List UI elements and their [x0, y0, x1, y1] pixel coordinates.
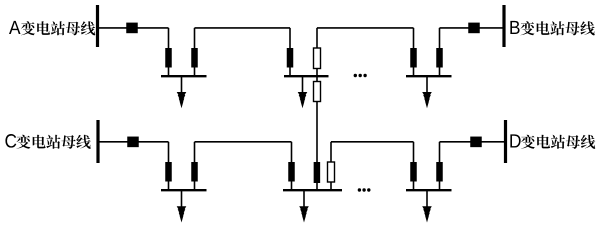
switch S13 on T11 branch — [410, 162, 417, 182]
branch wire at node T6 — [439, 28, 441, 76]
switch S11 (closed) on tie line above bar N5 — [314, 162, 321, 183]
circuit breaker QF3 on line C — [127, 137, 139, 148]
branch wire at node T11 — [413, 142, 415, 190]
branch wire at node T5 — [413, 28, 415, 76]
busbar D (substation D) — [504, 120, 507, 163]
wire W7: node T10 to node T11 — [331, 141, 414, 143]
busbar B (substation B) — [502, 5, 505, 47]
wire W8: node T12 to busbar D — [440, 141, 505, 143]
wire W2: node T2 to node T3 — [195, 27, 291, 29]
circuit breaker QF2 on line B — [468, 23, 480, 34]
busbar C (substation C) — [96, 120, 99, 163]
branch wire at node T9 — [291, 142, 293, 190]
load feeder arrow L4 — [181, 190, 183, 210]
wire W1: busbar A to node T1 — [99, 27, 169, 29]
switch S7 on T6 branch — [436, 48, 443, 68]
ellipsis dots (more feeders, bottom line) — [358, 188, 371, 191]
circuit breaker QF1 on line A — [126, 23, 138, 34]
circuit breaker QF4 on line D — [470, 137, 482, 148]
load feeder arrow L5 — [303, 190, 305, 210]
tap bar N3 (feeder n of line A-B) — [406, 75, 452, 77]
wire W5: busbar C to node T7 — [100, 141, 169, 143]
load feeder arrow L3 — [426, 76, 428, 96]
load feeder arrow L1 — [181, 76, 183, 96]
tap bar N6 (feeder n of line C-D) — [406, 189, 452, 191]
wire W3: node T4 to node T5 — [317, 27, 414, 29]
switch S14 on T12 branch — [436, 162, 443, 182]
load feeder arrow L6 — [426, 190, 428, 210]
ellipsis dots (more feeders, top line) — [354, 74, 367, 77]
branch wire at node T10 (from wire W7) — [330, 142, 332, 190]
branch wire at node T2 — [194, 28, 196, 76]
branch wire at node T12 — [439, 142, 441, 190]
tie line wire: node T4 down to bottom tap bar N5 — [316, 28, 318, 190]
branch wire at node T8 — [194, 142, 196, 190]
switch S9 on T8 branch — [191, 162, 198, 182]
switch S8 on T7 branch — [165, 162, 172, 182]
wire W4: node T6 to busbar B — [440, 27, 504, 29]
label: B substation busbar (B变电站母线) — [510, 21, 594, 36]
switch S2 on T2 branch — [191, 48, 198, 68]
label: C substation busbar (C变电站母线) — [5, 134, 90, 149]
switch S12 (open, hollow) on T10 branch — [328, 162, 335, 182]
label: D substation busbar (D变电站母线) — [510, 134, 595, 149]
label: A substation busbar (A变电站母线) — [9, 21, 95, 36]
switch S3 on T3 branch — [287, 48, 294, 68]
branch wire at node T3 — [289, 28, 291, 76]
switch S5 (open, hollow) on tie line below bar N2 — [314, 82, 321, 102]
branch wire at node T7 — [168, 142, 170, 190]
load feeder arrow L2 — [302, 76, 304, 96]
tap bar N2 (feeder 2 of line A-B) — [284, 75, 329, 77]
tap bar N1 (feeder 1 of line A-B) — [161, 75, 207, 77]
switch S1 on T1 branch — [165, 48, 172, 68]
busbar A (substation A) — [96, 5, 99, 47]
switch S4 (open, hollow) on tie line above bar N2 — [314, 48, 321, 69]
switch S6 on T5 branch — [410, 48, 417, 68]
tap bar N4 (feeder 1 of line C-D) — [161, 189, 207, 191]
tap bar N5 (feeder 2 of line C-D, tie connection) — [283, 189, 342, 191]
wire W6: node T8 to node T9 — [195, 141, 292, 143]
branch wire at node T1 — [168, 28, 170, 76]
switch S10 on T9 branch — [288, 162, 295, 182]
